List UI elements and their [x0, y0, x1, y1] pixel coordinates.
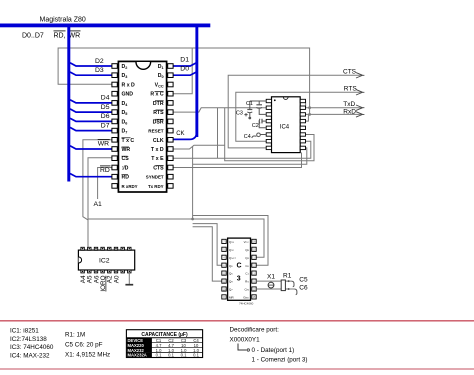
IC1 body i8251	[118, 61, 166, 192]
IC2 bottom pins	[81, 270, 131, 273]
IC2 top pins	[81, 247, 131, 250]
svg-text:D4: D4	[101, 95, 110, 102]
output arrow TxD	[356, 105, 364, 110]
svg-text:IC4: MAX-232: IC4: MAX-232	[10, 352, 50, 359]
svg-text:IC4: IC4	[280, 124, 290, 130]
wire D4 blue	[70, 100, 112, 103]
svg-text:RTS: RTS	[344, 86, 358, 93]
svg-text:C6: C6	[299, 284, 308, 291]
label D0	[180, 65, 189, 72]
label TxD	[343, 101, 355, 108]
wire CLK blue	[172, 132, 196, 140]
svg-text:X000X0Y1: X000X0Y1	[230, 336, 261, 343]
svg-text:Tx RDY: Tx RDY	[148, 184, 164, 189]
IORQ overline	[105, 276, 107, 292]
svg-text:R xRDY: R xRDY	[122, 184, 138, 189]
svg-text:WR: WR	[122, 147, 131, 153]
wire branch RTS line to IC4 right pin 6	[225, 108, 314, 161]
wire RxD output from IC4 right pin 3	[305, 113, 362, 115]
pointer line decod	[238, 344, 250, 352]
wire D7 blue	[70, 127, 112, 130]
label R1	[283, 272, 292, 279]
resistor R1	[281, 280, 285, 291]
wire IC4 pin1 tie	[305, 101, 306, 108]
wire clock junction vertical	[192, 146, 194, 219]
wire IC4 pin4 tie	[305, 114, 309, 121]
svg-text:DTR: DTR	[153, 101, 164, 107]
IC1 right pins	[168, 64, 173, 189]
label RTS	[344, 86, 358, 93]
IC1 left pins	[112, 64, 117, 189]
wire IC4 right pin 8 to clock junction	[193, 148, 307, 164]
label D7	[101, 122, 110, 129]
wire D5 blue	[70, 109, 112, 112]
svg-text:0.1: 0.1	[156, 353, 162, 358]
wire clock net to IC3 right pin 3	[88, 219, 264, 257]
label 74HC4060 under IC3	[239, 302, 254, 306]
capacitor C1 wiring	[250, 101, 266, 114]
label C2	[252, 123, 259, 129]
svg-text:0.1: 0.1	[168, 353, 174, 358]
IC1 internal pin labels left	[122, 64, 138, 189]
wire D6 blue	[70, 118, 112, 121]
svg-text:1 - Comenzi (port 3): 1 - Comenzi (port 3)	[252, 357, 308, 364]
svg-text:RD,: RD,	[54, 33, 66, 40]
svg-text:IC2:74LS138: IC2:74LS138	[10, 336, 47, 343]
IC4 body MAX-232	[272, 97, 301, 153]
svg-text:74HC4060: 74HC4060	[239, 302, 254, 306]
IC1 internal pin labels right	[146, 64, 164, 189]
IC4 left pins	[266, 99, 271, 149]
label C4	[244, 134, 251, 140]
svg-text:GND: GND	[122, 92, 134, 98]
wire D3 blue	[70, 72, 112, 75]
svg-text:MAX232A: MAX232A	[128, 353, 147, 358]
wire junction to IC3 left pin 4	[193, 224, 222, 266]
svg-text:0.1: 0.1	[193, 353, 199, 358]
wire junction to IC3 left pin 6	[193, 227, 222, 281]
output arrow RTS	[356, 90, 364, 95]
svg-text:WR: WR	[98, 141, 109, 148]
wire branch RTS line to IC4 right pin 7 line	[217, 108, 219, 159]
label A1	[94, 201, 103, 208]
IC3 body 74HC4060	[228, 238, 251, 300]
svg-text:C: C	[237, 263, 242, 270]
blue vertical bus drop right	[195, 27, 198, 137]
svg-text:D3: D3	[95, 67, 104, 74]
label C5	[299, 277, 308, 284]
plus mark C3	[244, 113, 247, 116]
label X1	[267, 273, 275, 280]
label D5	[101, 104, 110, 111]
svg-text:T x D: T x D	[151, 147, 164, 153]
capacitor C6	[288, 288, 297, 295]
svg-text:R x D: R x D	[122, 83, 136, 89]
capacitor C3 wiring	[247, 101, 252, 119]
IC3 left pin boxes	[222, 239, 226, 299]
svg-text:0 - Date(port 1): 0 - Date(port 1)	[252, 347, 295, 354]
node clock junction	[191, 218, 194, 221]
IC2 pin dots	[82, 248, 130, 272]
wire IC1 TxC to clock net	[83, 140, 112, 220]
wire IC3 to crystal top	[256, 280, 291, 282]
svg-text:C2: C2	[252, 123, 259, 129]
label C3	[236, 111, 243, 117]
wire IC1 TxE to IC4 right pin 7	[172, 141, 310, 158]
label IC4	[280, 124, 290, 130]
svg-text:D5: D5	[101, 104, 110, 111]
svg-text:CS: CS	[122, 156, 130, 162]
wire RxD net (RxD pin to RxC and RxD output)	[58, 48, 310, 114]
wire A1 from IC1 C/D pin	[98, 168, 112, 200]
crystal X1	[268, 281, 274, 289]
svg-text:CLK: CLK	[153, 138, 164, 144]
label RD with overline	[100, 166, 111, 174]
svg-text:R1: 1M: R1: 1M	[65, 332, 85, 339]
blue vertical bus drop left	[67, 27, 70, 182]
wire IC1 TxD with jog joining branch	[172, 145, 224, 149]
wire IC1 CTS to IC4 pin 8 area	[172, 153, 301, 168]
svg-text:D1: D1	[180, 56, 189, 63]
svg-text:C4: C4	[244, 134, 251, 140]
svg-text:D0..D7: D0..D7	[22, 33, 44, 40]
svg-text:T x C: T x C	[122, 138, 135, 144]
svg-text:RESET: RESET	[148, 129, 164, 134]
svg-text::/D: :/D	[122, 166, 129, 172]
svg-text:X1: 4,9152 MHz: X1: 4,9152 MHz	[65, 352, 110, 359]
IC2 body 74LS138	[78, 250, 134, 270]
svg-text:SYNDET: SYNDET	[146, 175, 164, 180]
svg-text:CTS: CTS	[343, 69, 357, 76]
svg-text:0.1: 0.1	[181, 353, 187, 358]
svg-text:Decodificare port:: Decodificare port:	[230, 327, 280, 334]
svg-text:IC1: i8251: IC1: i8251	[10, 328, 39, 335]
wire IC1 RTS to IC4 left pin 2	[172, 108, 266, 112]
capacitor C2 wiring	[259, 119, 266, 128]
IC1 internal overlines left	[122, 138, 131, 175]
wire junction to IC3 right pin 4	[193, 216, 268, 266]
IC4 right pins	[300, 99, 305, 149]
svg-text:C5 C6: 20 pF: C5 C6: 20 pF	[65, 342, 103, 349]
svg-text:R x C: R x C	[150, 92, 164, 98]
label Magistrala Z80	[40, 16, 86, 23]
wire RTS output to IC4 left pin 7	[236, 92, 362, 141]
notes decodificare	[230, 327, 308, 364]
svg-text:C3: C3	[236, 111, 243, 117]
svg-text:D7: D7	[101, 122, 110, 129]
svg-text:D2: D2	[95, 58, 104, 65]
label D6	[101, 113, 110, 120]
wire CTS output to IC4 left pin 8	[228, 75, 362, 148]
label CK	[176, 131, 184, 137]
notes IC list	[10, 328, 54, 360]
output arrow RxD	[356, 112, 364, 117]
wire D2 blue	[70, 63, 112, 66]
svg-text:D0: D0	[180, 65, 189, 72]
capacitor C5	[288, 280, 294, 287]
wire WR blue	[70, 146, 112, 149]
svg-text:Magistrala Z80: Magistrala Z80	[40, 16, 86, 23]
notes R C X values	[65, 332, 110, 359]
wire RD blue	[70, 174, 112, 177]
svg-text:3: 3	[237, 276, 241, 283]
label D0..D7 RD, WR	[22, 31, 81, 40]
svg-text:RTS: RTS	[153, 110, 164, 116]
wire IC3 to crystal bottom	[256, 288, 294, 290]
svg-text:IC2: IC2	[99, 258, 110, 265]
label CTS	[343, 69, 357, 76]
svg-text:RxD: RxD	[343, 109, 356, 116]
svg-text:RD: RD	[122, 175, 130, 181]
label D3	[95, 67, 104, 74]
svg-text:RD: RD	[100, 167, 110, 174]
svg-text:A0: A0	[113, 275, 120, 283]
label D2	[95, 58, 104, 65]
label RxD	[343, 109, 356, 116]
label C1	[246, 101, 253, 107]
bus Magistrala Z80	[0, 24, 210, 28]
svg-text:CTS: CTS	[153, 166, 164, 172]
wire TxD output from IC4 right pin 2	[305, 107, 362, 109]
label WR with overline	[98, 140, 110, 148]
wire D0 blue	[173, 72, 196, 75]
capacitor C4 wiring	[252, 133, 266, 138]
IC3 pin numbers	[223, 242, 256, 300]
node RxD line junction	[308, 113, 311, 116]
svg-text:D6: D6	[101, 113, 110, 120]
ground IC2 pin 8	[125, 273, 133, 285]
wire D1 blue	[173, 63, 196, 66]
svg-text:CK: CK	[176, 131, 184, 137]
capacitance table	[126, 330, 202, 358]
node TxD line junction	[308, 106, 311, 109]
output arrow CTS	[356, 73, 364, 78]
IC2 bottom pin labels	[80, 275, 120, 292]
wire IC1 CS to IC2 top pin 2	[88, 158, 112, 248]
svg-text:R1: R1	[283, 272, 292, 279]
svg-text:X1: X1	[267, 273, 275, 280]
IC3 internal labels	[229, 240, 236, 300]
label IC2	[99, 258, 110, 265]
svg-text:IC3: 74HC4060: IC3: 74HC4060	[10, 344, 54, 351]
label D1	[180, 56, 189, 63]
red separator line bottom	[0, 368, 474, 370]
svg-text:DSR: DSR	[153, 119, 164, 125]
svg-text:A1: A1	[94, 201, 103, 208]
label C6	[299, 284, 308, 291]
svg-text:TxD: TxD	[343, 101, 355, 108]
IC3 big C 3 marks	[237, 263, 242, 283]
svg-text:C5: C5	[299, 277, 308, 284]
IC1 internal overlines right	[155, 92, 164, 166]
svg-text:T x E: T x E	[151, 156, 164, 162]
red separator line top	[0, 320, 474, 322]
IC3 right pin boxes	[252, 239, 256, 299]
label D4	[101, 95, 110, 102]
